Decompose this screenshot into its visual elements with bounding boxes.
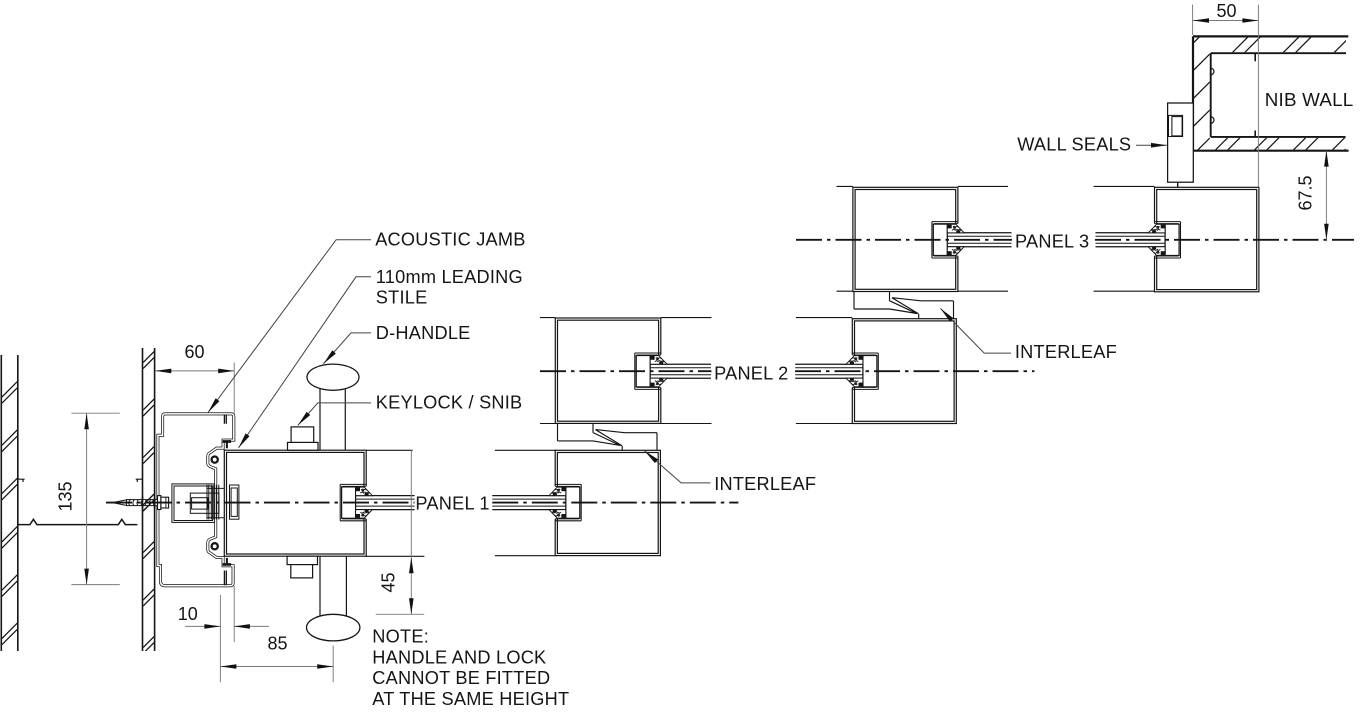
wall break tick left — [18, 479, 25, 482]
panel 1 glazing lines — [356, 496, 566, 510]
svg-text:10: 10 — [178, 604, 198, 624]
dimension 60 (jamb depth) — [155, 342, 234, 642]
wall: left partition wall 2 (jamb fixing wall) — [143, 304, 155, 653]
svg-text:CANNOT BE FITTED: CANNOT BE FITTED — [372, 668, 550, 688]
svg-text:HANDLE AND LOCK: HANDLE AND LOCK — [372, 647, 546, 667]
svg-text:85: 85 — [267, 633, 287, 653]
svg-text:KEYLOCK / SNIB: KEYLOCK / SNIB — [376, 393, 523, 413]
leader: keylock / snib — [298, 403, 371, 426]
svg-text:WALL SEALS: WALL SEALS — [1017, 134, 1131, 154]
dimension 85 (handle centre) — [220, 633, 333, 682]
jamb fixing bracket — [172, 484, 215, 523]
stile: panel 2 left stile — [555, 318, 661, 423]
d-handle top stem — [320, 389, 345, 450]
glazing bead + gaskets: panel 3 right stile — [1148, 224, 1179, 255]
jamb gasket ring top — [212, 457, 218, 463]
dimension 135 (wall cavity) — [56, 413, 120, 584]
glazing pocket: panel 2 left stile (right-facing) — [635, 353, 664, 389]
svg-text:45: 45 — [379, 572, 399, 592]
wall 2 lines over screw — [143, 497, 155, 509]
interleaf between panel 2 and panel 3 stiles — [854, 292, 954, 319]
leader: 110mm leading stile — [239, 277, 372, 448]
fixing screw threaded shank — [127, 500, 158, 506]
fixing screw tip — [112, 500, 127, 506]
panel 3 glazing lines — [947, 233, 1165, 247]
jamb seal clip top (black) — [223, 440, 232, 448]
dimension 10 (jamb clearance) — [178, 595, 269, 682]
glazing pocket: panel 3 right stile (left-facing) — [1152, 222, 1181, 258]
d-handle bottom stem — [320, 556, 346, 618]
glazing pocket: panel 1 right stile (left-facing) — [552, 484, 581, 520]
wall seal body — [1168, 103, 1194, 182]
panel 3 centreline — [796, 239, 1354, 241]
panel 2 glazing lines — [650, 364, 863, 378]
wall break tick right — [136, 479, 143, 482]
d-handle bottom ellipse — [307, 614, 360, 641]
svg-text:PANEL 3: PANEL 3 — [1015, 231, 1089, 251]
dimension 45 (handle offset) — [376, 450, 425, 614]
panel 1 centreline — [106, 502, 738, 504]
glazing bead + gaskets: leading stile — [342, 487, 373, 518]
svg-text:135: 135 — [56, 481, 76, 511]
jamb adjuster block — [190, 485, 224, 520]
interleaf between panel 1 and panel 2 stiles — [558, 423, 658, 450]
svg-text:INTERLEAF: INTERLEAF — [1015, 342, 1117, 362]
svg-text:AT THE SAME HEIGHT: AT THE SAME HEIGHT — [372, 689, 569, 709]
leader: acoustic jamb — [208, 240, 371, 413]
fixing screw washer — [158, 496, 161, 510]
svg-text:NOTE:: NOTE: — [372, 627, 429, 647]
panel 1 head-sill connector lines — [366, 450, 555, 556]
nib wall inner reference ticks — [1254, 53, 1256, 137]
fixing screw hex head — [161, 497, 169, 508]
leader: interleaf upper — [941, 309, 1012, 354]
leader: interleaf lower — [645, 451, 711, 483]
glazing pocket: panel 2 right stile (left-facing) — [849, 353, 878, 389]
dimension 50 (nib wall engagement) — [1193, 1, 1259, 187]
nib wall outline — [1193, 36, 1349, 150]
wall cavity break line with zigzags — [18, 519, 138, 524]
keylock / snib bottom body — [287, 556, 317, 578]
stile: panel 2 right stile — [852, 319, 956, 424]
jamb seal clip bottom (black) — [223, 558, 232, 566]
svg-text:67.5: 67.5 — [1296, 175, 1316, 210]
svg-text:PANEL 2: PANEL 2 — [714, 364, 788, 384]
glazing bead + gaskets: panel 2 left stile — [636, 356, 667, 387]
jamb gasket ring bottom — [212, 543, 218, 549]
panel 3 head-sill connector lines — [837, 186, 1155, 291]
glazing pocket: leading stile (right-facing) — [340, 484, 369, 520]
svg-text:ACOUSTIC JAMB: ACOUSTIC JAMB — [375, 229, 525, 249]
stile: panel 3 left stile — [853, 187, 958, 291]
panel 2 centreline — [540, 370, 1034, 372]
glazing bead + gaskets: panel 1 right stile — [549, 487, 580, 518]
stile: panel 3 right stile — [1155, 187, 1259, 291]
note text block — [372, 627, 569, 709]
glazing pocket: panel 3 left stile (right-facing) — [932, 222, 961, 258]
d-handle top ellipse — [307, 364, 359, 390]
glazing bead + gaskets: panel 3 left stile — [933, 224, 964, 255]
leader: d-handle — [324, 333, 372, 364]
keylock / snib top body — [288, 427, 319, 450]
stile: 110mm leading stile (panel 1) — [224, 450, 366, 556]
svg-text:NIB WALL: NIB WALL — [1265, 89, 1354, 110]
nib wall hatching — [1194, 26, 1362, 154]
jamb internal ribs at stile line — [224, 415, 226, 586]
svg-text:PANEL 1: PANEL 1 — [415, 494, 489, 514]
svg-text:110mm LEADING: 110mm LEADING — [376, 267, 523, 287]
leader: wall seals — [1136, 144, 1167, 146]
dimension 67.5 (nib wall to panel 3 centreline) — [1296, 151, 1329, 240]
svg-text:INTERLEAF: INTERLEAF — [714, 474, 816, 494]
nib wall seal bumps on inner face — [1211, 68, 1214, 123]
svg-text:50: 50 — [1216, 1, 1236, 21]
wall seal stem to panel 3 stile — [1177, 182, 1179, 187]
svg-text:60: 60 — [184, 342, 204, 362]
acoustic jamb extrusion profile (double line) — [158, 414, 234, 586]
svg-text:D-HANDLE: D-HANDLE — [376, 323, 471, 343]
glazing bead + gaskets: panel 2 right stile — [846, 356, 877, 387]
stile lock channel (inside leading stile) — [230, 485, 239, 519]
wall: left partition wall 1 — [1, 333, 18, 651]
stile: panel 1 right stile — [555, 450, 660, 555]
svg-text:STILE: STILE — [376, 288, 428, 308]
panel 2 head-sill connector lines — [540, 318, 852, 424]
